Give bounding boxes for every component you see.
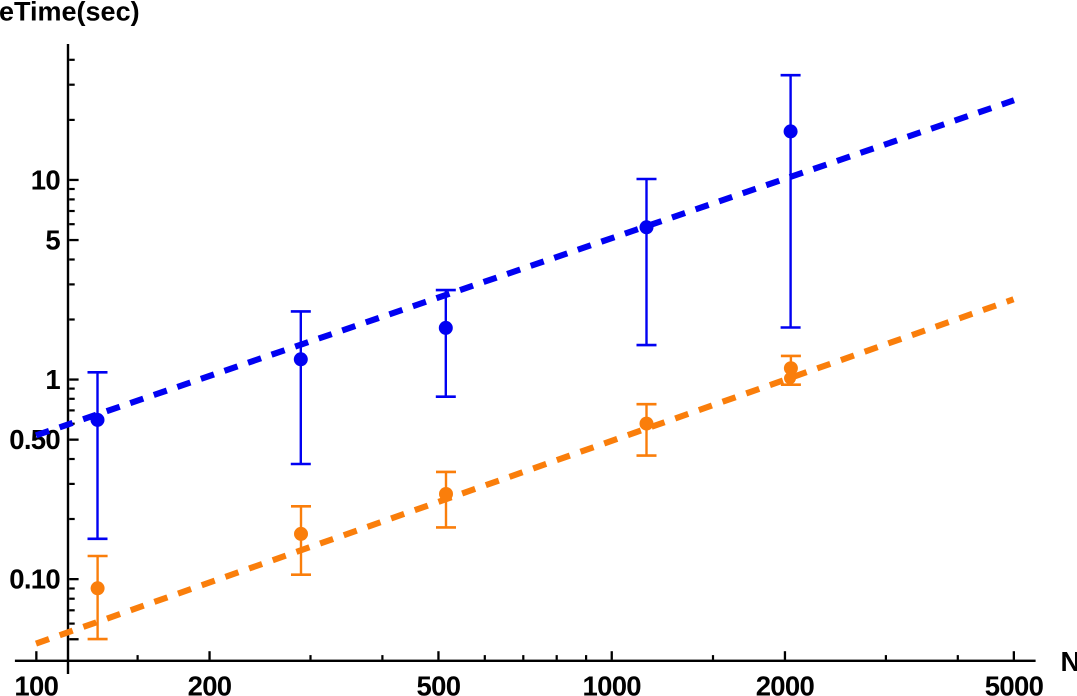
blue data point 5 xyxy=(784,124,798,138)
blue data point 2 xyxy=(294,352,308,366)
svg-text:5000: 5000 xyxy=(985,671,1044,696)
y-axis line xyxy=(67,44,69,674)
svg-text:0.50: 0.50 xyxy=(9,424,60,455)
svg-text:1: 1 xyxy=(45,364,60,395)
orange data point 1 xyxy=(91,581,105,595)
orange error bar 4 xyxy=(637,404,657,455)
svg-text:eTime(sec): eTime(sec) xyxy=(0,0,140,26)
blue error bar 3 xyxy=(436,290,456,397)
orange dashed fit line xyxy=(36,299,1014,643)
svg-text:500: 500 xyxy=(417,671,461,696)
orange data point 5a xyxy=(784,361,798,375)
orange data point 4 xyxy=(640,417,654,431)
x-axis minor ticks (150,300,400,600,700,800,900,1500,3000,4000) xyxy=(137,655,959,660)
blue data point 3 xyxy=(439,321,453,335)
x-axis major ticks (100,200,500,1000,2000,5000) xyxy=(35,651,1015,660)
orange data point 3 xyxy=(439,487,453,501)
svg-text:2000: 2000 xyxy=(756,671,815,696)
orange error bar 3 xyxy=(436,472,456,528)
y-axis major ticks (10,5,1,0.50,0.10,0.05) xyxy=(69,179,78,641)
svg-text:100: 100 xyxy=(14,671,58,696)
blue data point 1 xyxy=(91,413,105,427)
svg-text:N: N xyxy=(1061,646,1077,677)
orange data point 2 xyxy=(294,527,308,541)
svg-text:10: 10 xyxy=(31,164,61,195)
svg-text:5: 5 xyxy=(45,225,60,256)
svg-text:0.10: 0.10 xyxy=(9,564,60,595)
svg-text:1000: 1000 xyxy=(583,671,642,696)
svg-text:200: 200 xyxy=(188,671,232,696)
blue error bar 5 xyxy=(781,75,801,327)
blue error bar 1 xyxy=(88,372,108,539)
orange data point 5b xyxy=(784,372,796,384)
blue dashed fit line xyxy=(36,100,1014,435)
blue error bar 4 xyxy=(637,179,657,345)
blue data point 4 xyxy=(640,220,654,234)
orange error bar 5 xyxy=(781,356,801,385)
x-axis line xyxy=(15,660,1036,662)
orange error bar 2 xyxy=(291,506,311,574)
blue error bar 2 xyxy=(291,311,311,464)
orange error bar 1 xyxy=(88,556,108,639)
y-axis minor ticks xyxy=(69,59,75,625)
